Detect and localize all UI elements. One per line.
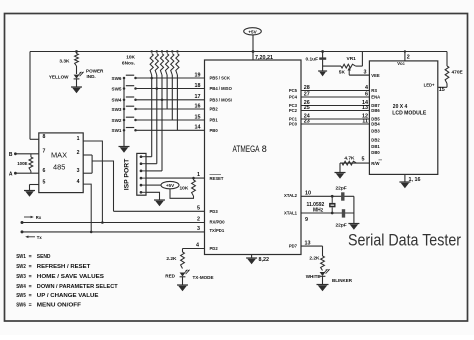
svg-text:4.7K: 4.7K [344,155,355,161]
svg-text:9: 9 [305,217,308,223]
svg-text:SW2: SW2 [112,118,122,123]
svg-text:WHITE: WHITE [306,274,321,279]
svg-text:PB0: PB0 [210,128,219,133]
svg-text:VR1: VR1 [347,56,357,62]
svg-text:=: = [29,264,32,270]
svg-text:16: 16 [195,103,201,109]
svg-text:VEE: VEE [371,73,380,78]
svg-text:2.2K: 2.2K [166,256,177,262]
svg-text:=: = [29,303,32,309]
svg-text:15: 15 [439,87,445,93]
svg-text:=: = [29,293,32,299]
svg-text:SW3: SW3 [112,107,122,112]
svg-text:ATMEGA: ATMEGA [233,144,260,154]
svg-text:SW1: SW1 [16,254,26,260]
svg-text:PD3: PD3 [210,209,219,214]
svg-text:REFRESH / RESET: REFRESH / RESET [37,264,91,270]
svg-text:27: 27 [304,92,310,98]
svg-text:MHz: MHz [313,208,324,214]
svg-text:7: 7 [43,149,46,155]
svg-text:SW1: SW1 [112,128,122,133]
svg-text:5: 5 [197,205,200,211]
svg-text:=: = [29,254,32,260]
svg-text:DB4: DB4 [371,122,380,127]
svg-text:+5V: +5V [166,183,175,188]
svg-text:8: 8 [262,144,267,154]
svg-text:25: 25 [304,105,310,111]
svg-text:PD7: PD7 [289,244,298,249]
svg-text:SW4: SW4 [16,284,26,290]
svg-text:0.1uF: 0.1uF [305,56,318,62]
svg-text:Rx: Rx [36,215,42,220]
svg-text:PB4 / MISO: PB4 / MISO [210,86,233,91]
svg-text:PD2: PD2 [210,246,219,251]
svg-text:=: = [29,284,32,290]
svg-text:SW6: SW6 [112,76,122,81]
svg-text:Vcc: Vcc [397,61,405,66]
svg-text:LED+: LED+ [424,82,435,87]
svg-text:R/W: R/W [371,161,379,166]
svg-text:8: 8 [43,134,46,140]
svg-text:HOME / SAVE VALUES: HOME / SAVE VALUES [37,274,105,280]
svg-text:B: B [9,152,13,158]
svg-text:3: 3 [77,168,80,174]
svg-text:4: 4 [77,179,80,185]
svg-text:22pF: 22pF [336,223,347,229]
svg-text:5: 5 [43,179,46,185]
svg-text:YELLOW: YELLOW [49,75,69,80]
svg-text:BLINKER: BLINKER [332,278,353,283]
svg-text:SW3: SW3 [16,274,26,280]
svg-text:20 X 4: 20 X 4 [393,104,408,110]
svg-text:PB3 / MOSI: PB3 / MOSI [210,98,232,103]
svg-text:PB2: PB2 [210,107,219,112]
svg-text:10K: 10K [126,55,135,61]
svg-text:2: 2 [77,150,80,156]
svg-text:DB0: DB0 [371,150,380,155]
svg-text:1: 1 [197,172,200,178]
svg-text:SW5: SW5 [112,86,122,91]
svg-text:SW2: SW2 [16,264,26,270]
svg-text:10: 10 [305,190,311,196]
svg-text:1, 16: 1, 16 [409,177,421,183]
svg-text:485: 485 [53,162,65,171]
svg-text:Tx: Tx [37,235,43,240]
svg-text:DB2: DB2 [371,137,380,142]
svg-text:PB5 / SCK: PB5 / SCK [210,76,230,81]
svg-text:3.3K: 3.3K [59,59,70,65]
svg-text:ENA: ENA [371,95,380,100]
svg-text:PC5: PC5 [289,88,298,93]
svg-text:7,20,21: 7,20,21 [255,55,273,61]
svg-text:2: 2 [407,55,410,61]
svg-text:UP / CHANGE VALUE: UP / CHANGE VALUE [37,293,99,299]
svg-text:IND.: IND. [87,74,96,79]
svg-text:DB1: DB1 [371,144,380,149]
svg-text:DB6: DB6 [371,108,380,113]
svg-text:SEND: SEND [37,254,51,260]
svg-text:5: 5 [362,156,365,162]
svg-text:15: 15 [195,114,201,120]
svg-text:PC0: PC0 [289,122,298,127]
svg-text:POWER: POWER [86,69,104,74]
svg-text:10K: 10K [180,186,189,192]
svg-text:4: 4 [196,243,199,249]
svg-text:PB1: PB1 [210,118,219,123]
svg-text:17: 17 [195,94,201,100]
svg-text:RS: RS [371,88,377,93]
svg-text:2.2K: 2.2K [309,256,320,262]
svg-text:2: 2 [197,217,200,223]
svg-text:RESET: RESET [210,176,224,181]
svg-text:6: 6 [365,92,368,98]
svg-text:11: 11 [362,119,368,125]
svg-text:13: 13 [305,240,311,246]
svg-text:19: 19 [195,72,201,78]
svg-text:1: 1 [77,136,80,142]
svg-text:RX/PD0: RX/PD0 [210,220,226,225]
svg-text:A: A [9,171,13,177]
svg-text:PC2: PC2 [289,108,298,113]
svg-text:TX-MODE: TX-MODE [193,275,214,280]
svg-text:ISP PORT: ISP PORT [124,158,131,190]
svg-text:TX/PD1: TX/PD1 [210,228,225,233]
svg-text:SW6: SW6 [16,303,26,309]
svg-text:MAX: MAX [51,151,67,160]
svg-text:DOWN / PARAMETER SELECT: DOWN / PARAMETER SELECT [37,284,119,290]
svg-text:23: 23 [304,119,310,125]
svg-text:14: 14 [195,125,201,131]
svg-text:XTAL1: XTAL1 [284,210,298,215]
svg-text:28: 28 [304,85,310,91]
svg-text:LCD MODULE: LCD MODULE [392,110,427,116]
svg-text:=: = [29,274,32,280]
svg-text:18: 18 [195,83,201,89]
svg-text:6: 6 [43,168,46,174]
svg-text:13: 13 [362,105,368,111]
svg-text:Serial Data Tester: Serial Data Tester [348,230,461,249]
svg-text:DB3: DB3 [371,129,380,134]
svg-text:22pF: 22pF [336,186,347,192]
svg-text:470E: 470E [452,70,464,76]
svg-text:SW5: SW5 [16,293,26,299]
svg-text:PC4: PC4 [289,95,298,100]
svg-text:3: 3 [197,226,200,232]
svg-text:100E: 100E [17,161,27,166]
svg-text:4: 4 [365,85,368,91]
svg-text:8,22: 8,22 [259,257,270,263]
svg-text:+5V: +5V [248,29,257,34]
svg-text:6Nos.: 6Nos. [122,61,135,67]
svg-text:XTAL2: XTAL2 [284,193,298,198]
svg-text:MENU ON/OFF: MENU ON/OFF [37,303,81,309]
svg-text:SW4: SW4 [112,98,122,103]
svg-text:5K: 5K [339,69,346,75]
svg-text:RED: RED [165,274,175,279]
svg-text:3: 3 [364,69,367,75]
